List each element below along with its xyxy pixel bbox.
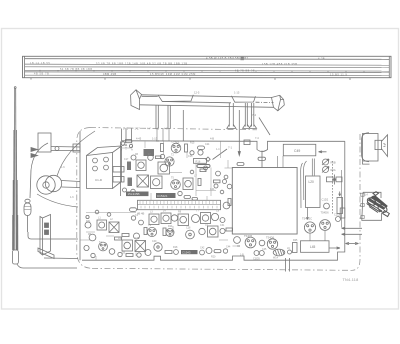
wire W-out2 xyxy=(289,258,291,272)
capacitor C3 xyxy=(131,155,136,160)
IF transformer T6 xyxy=(122,240,133,251)
capacitor C28 xyxy=(84,245,89,250)
pointer guides xyxy=(122,129,132,141)
svg-text:4B 5B 7B: 4B 5B 7B xyxy=(34,73,49,76)
capacitor Cx10 xyxy=(107,213,111,217)
wire 7-4 xyxy=(259,118,270,136)
capacitor C102 xyxy=(324,203,330,209)
power transistor TR20 xyxy=(320,220,331,231)
wire to pointer label xyxy=(213,149,228,160)
resistor R15 xyxy=(185,144,188,152)
svg-text:R18: R18 xyxy=(173,246,178,249)
wire notch-shield xyxy=(261,151,263,168)
svg-text:C1D2: C1D2 xyxy=(322,198,329,202)
svg-text:C44: C44 xyxy=(210,188,215,191)
wire TR19 down xyxy=(310,231,325,241)
svg-text:C40: C40 xyxy=(152,240,157,243)
svg-text:4-B: 4-B xyxy=(210,137,214,141)
svg-text:C31: C31 xyxy=(220,224,225,227)
capacitor C42 xyxy=(200,250,205,255)
transistor TR14 xyxy=(199,228,205,234)
wire along right edge xyxy=(341,170,343,228)
resistor block R16 xyxy=(194,159,207,164)
shield big rect xyxy=(232,168,297,235)
IF transformer T8 xyxy=(178,214,189,226)
IF transformer T5 xyxy=(183,178,193,190)
transistor TR13 xyxy=(211,213,218,220)
svg-text:7-4: 7-4 xyxy=(255,136,259,140)
coil L1 xyxy=(97,220,107,230)
tuning control H xyxy=(327,175,343,185)
svg-text:R31: R31 xyxy=(86,220,91,223)
svg-text:C28: C28 xyxy=(186,227,191,230)
capacitor C39 xyxy=(258,157,266,160)
resistor R1 xyxy=(126,140,132,143)
resistor R102 xyxy=(337,192,343,214)
tuning gang box xyxy=(87,146,122,189)
svg-text:C1D4: C1D4 xyxy=(334,213,341,217)
capacitor C39b xyxy=(237,163,244,166)
capacitor C41 xyxy=(174,250,179,255)
capacitor Cx7 xyxy=(220,190,224,194)
svg-text:C15: C15 xyxy=(188,155,193,158)
capacitor C8 xyxy=(184,196,191,199)
capacitor C34 xyxy=(220,218,225,223)
wire pair x313 xyxy=(312,159,314,176)
transistor TR16 xyxy=(234,237,241,244)
svg-text:R6A: R6A xyxy=(331,168,336,172)
svg-text:7-4: 7-4 xyxy=(252,113,256,117)
svg-text:15L345B: 15L345B xyxy=(128,192,140,196)
capacitor C4 xyxy=(148,155,154,161)
power transistor TR19 xyxy=(304,222,315,233)
gang tab 2 xyxy=(113,177,124,183)
transistor TR1 xyxy=(171,143,181,153)
resistor R25 xyxy=(293,243,298,253)
svg-text:54 6B 7B BB 9B 1BB: 54 6B 7B BB 9B 1BB xyxy=(60,68,93,71)
capacitor C30 xyxy=(118,252,122,256)
svg-text:4.2B: 4.2B xyxy=(318,57,325,61)
capacitor Cx1 xyxy=(121,142,125,146)
IF transformer T3 xyxy=(137,175,149,187)
wire net field xyxy=(81,142,241,261)
capacitor C37 xyxy=(139,220,144,225)
capacitor Cy2 xyxy=(223,180,227,184)
svg-text:C35: C35 xyxy=(135,237,140,240)
svg-text:1-6: 1-6 xyxy=(70,196,74,199)
capacitor C25 xyxy=(160,154,164,158)
output coil L6 hatched xyxy=(273,249,285,256)
svg-text:1B: 1B xyxy=(122,252,125,255)
svg-text:L45: L45 xyxy=(310,245,316,249)
terminal block right edge xyxy=(340,208,345,218)
capacitor C9 xyxy=(192,198,198,201)
capacitor Cy1 xyxy=(214,184,218,188)
wire W-out1 xyxy=(285,258,287,272)
svg-text:R20: R20 xyxy=(211,256,216,259)
svg-text:C21: C21 xyxy=(123,144,128,147)
svg-text:R14: R14 xyxy=(168,225,173,228)
coil L2 xyxy=(109,222,119,233)
antenna trimmer pill xyxy=(24,170,31,232)
svg-text:15.B5 11.9: 15.B5 11.9 xyxy=(330,72,347,76)
trimmer CT1 xyxy=(206,157,210,161)
resistor R24 xyxy=(165,251,172,254)
capacitor C44 xyxy=(223,249,227,253)
pot VR2 xyxy=(322,167,329,173)
field labels xyxy=(86,140,298,260)
capacitor C29 xyxy=(109,249,115,255)
tuning drum xyxy=(37,175,80,194)
capacitor Cx2 xyxy=(129,144,132,147)
pill C43 xyxy=(214,250,221,253)
resistor R20 xyxy=(226,228,233,231)
svg-text:C17: C17 xyxy=(124,158,129,161)
capacitor Cx11 xyxy=(86,215,89,218)
dimension arrow right xyxy=(346,242,359,244)
svg-text:TN4-118: TN4-118 xyxy=(343,278,359,282)
wire dashed x332 xyxy=(332,161,334,215)
coil L4 xyxy=(161,213,171,224)
capacitor C27 xyxy=(85,222,91,228)
transistor TR6 xyxy=(89,234,96,241)
transistor TR4 xyxy=(171,180,181,190)
connector strip CN1 xyxy=(138,200,221,209)
svg-text:4BM 49B: 4BM 49B xyxy=(103,72,116,76)
capacitor C47 xyxy=(288,250,292,254)
capacitor Cx9 xyxy=(95,210,99,214)
svg-text:R16: R16 xyxy=(196,159,201,163)
capacitor Cx3 xyxy=(204,166,208,170)
capacitor C7 xyxy=(178,191,182,195)
power transistor TR17 xyxy=(245,237,256,248)
wire pill to board xyxy=(28,232,78,239)
capacitor C6 xyxy=(131,189,136,194)
svg-text:W14: W14 xyxy=(273,257,279,260)
pot VR1 xyxy=(322,159,329,165)
IF transformer T1 xyxy=(136,160,146,171)
electrolytic C32 xyxy=(154,243,162,251)
capacitor Cx8 xyxy=(190,170,194,174)
capacitor Cx4 xyxy=(216,171,221,176)
antenna xyxy=(12,87,77,268)
dark label strip 3 xyxy=(181,250,198,255)
L20 tall rect xyxy=(306,176,321,208)
dial cord curves xyxy=(31,131,95,207)
svg-text:C42: C42 xyxy=(200,247,205,250)
resistor Rx1 xyxy=(214,180,221,183)
svg-text:R12: R12 xyxy=(118,237,123,240)
resistor Ry2 xyxy=(156,156,162,159)
svg-text:4-45: 4-45 xyxy=(136,137,142,141)
label strip dark 2 xyxy=(156,193,176,198)
terminal rect TP1 xyxy=(244,140,250,145)
wire C49 leads xyxy=(278,156,284,168)
transistor TR7 xyxy=(99,242,108,251)
transistor TR9 xyxy=(147,227,156,236)
capacitor C36 xyxy=(131,216,135,220)
svg-text:C24: C24 xyxy=(205,143,210,146)
svg-text:R5B: R5B xyxy=(331,161,336,165)
svg-text:4B: 4B xyxy=(237,245,240,248)
capacitor Cx5 xyxy=(224,175,228,179)
power transistor TR18 xyxy=(267,239,277,249)
transistor TR5 xyxy=(223,202,230,209)
svg-text:4B: 4B xyxy=(88,233,91,236)
resistor R19 xyxy=(163,228,166,236)
twin capacitor C46 xyxy=(253,251,264,261)
capacitor Cx6 xyxy=(227,184,232,189)
electrolytic C33 xyxy=(186,230,195,239)
capacitor C40 xyxy=(137,253,141,257)
transistor TR11 xyxy=(166,229,174,237)
svg-text:C45: C45 xyxy=(262,248,267,251)
capacitor C5 xyxy=(123,188,127,192)
capacitor bar C26 xyxy=(197,165,210,168)
resistor R18 xyxy=(115,237,122,240)
svg-text:4B: 4B xyxy=(135,153,138,156)
capacitor C38 xyxy=(91,253,95,257)
capacitor C45 xyxy=(259,240,265,246)
svg-text:15B 17B 4B8 31B 35B: 15B 17B 4B8 31B 35B xyxy=(262,62,297,66)
handle rail xyxy=(131,90,285,111)
pointer arrow line xyxy=(238,110,240,156)
svg-text:C1D5: C1D5 xyxy=(253,257,260,261)
earphone jack assembly xyxy=(342,192,390,236)
svg-text:1-15: 1-15 xyxy=(234,90,240,94)
transistor TR8 xyxy=(134,233,140,239)
svg-text:C15421: C15421 xyxy=(157,194,168,198)
svg-text:C49: C49 xyxy=(294,149,300,153)
lower-left bracket plate xyxy=(38,215,78,259)
resistor R2 xyxy=(161,144,164,152)
transistor TR12 xyxy=(192,215,200,223)
PCB outline xyxy=(80,110,345,260)
capacitor C35 xyxy=(220,228,225,233)
svg-text:6B 7B BB 9B: 6B 7B BB 9B xyxy=(235,70,255,73)
battery holder rect xyxy=(301,241,341,253)
svg-text:C1-D: C1-D xyxy=(95,178,103,182)
resistor R23 xyxy=(126,254,133,257)
svg-text:53 6B 7B 8B 1BB 12B 14B 16B: 53 6B 7B 8B 1BB 12B 14B 16B 4B 52 6B 7B … xyxy=(96,61,188,65)
wire C49-L20 b xyxy=(304,161,307,200)
svg-text:T54D6: T54D6 xyxy=(321,211,330,215)
transistor TR10 xyxy=(171,215,177,221)
svg-text:12-5: 12-5 xyxy=(194,91,200,95)
capacitor C31 xyxy=(145,250,151,256)
upper-left bracket xyxy=(31,133,80,158)
IF transformer T7 xyxy=(135,241,146,252)
svg-text:L20: L20 xyxy=(309,180,315,184)
transistor TR2 xyxy=(198,150,203,155)
svg-text:C1543: C1543 xyxy=(182,251,191,255)
svg-text:4-B: 4-B xyxy=(155,126,159,130)
svg-text:15.B5(M) 49M 41M 31M 2: 15.B5(M) 49M 41M 31M 25M xyxy=(150,72,196,76)
dial mount ticks xyxy=(31,78,350,80)
cabinet outline dash-dot xyxy=(77,128,360,271)
electrolytic dark CE1 xyxy=(144,149,155,156)
coil L3 xyxy=(149,214,159,225)
svg-text:1B 14 1B 55: 1B 14 1B 55 xyxy=(30,62,50,65)
IF transformer T4 xyxy=(151,176,163,189)
capacitor C104 xyxy=(334,213,341,222)
wire C49-L20 a xyxy=(301,163,303,208)
transistor TR3 xyxy=(165,157,174,166)
resistor Rx2 xyxy=(198,179,201,186)
dial ticks row xyxy=(40,70,364,72)
IF transformer T2 xyxy=(158,162,170,174)
transistor TR15 xyxy=(206,248,212,254)
speaker xyxy=(362,133,388,164)
svg-text:1-45: 1-45 xyxy=(123,126,129,130)
svg-text:R25: R25 xyxy=(293,239,298,242)
svg-text:T5 4D2: T5 4D2 xyxy=(171,140,180,144)
dial scale assembly xyxy=(23,56,392,80)
svg-text:C44: C44 xyxy=(226,246,231,249)
diode D2 dark xyxy=(128,178,133,187)
resistor R22 xyxy=(122,234,129,237)
capacitor C23 xyxy=(190,151,194,155)
diode D1 dark xyxy=(127,162,131,171)
gang tab 1 xyxy=(113,167,124,173)
rail legs xyxy=(156,103,257,141)
svg-text:4B 4B: 4B 4B xyxy=(137,212,145,216)
capacitor C24 xyxy=(198,146,205,149)
resistor R17 xyxy=(228,199,231,206)
dial pointer mark xyxy=(241,57,244,60)
wire L20 down xyxy=(307,208,309,220)
IF transformer T9 xyxy=(208,226,219,237)
resistor Ry1 xyxy=(200,169,206,172)
svg-text:R15: R15 xyxy=(190,142,195,145)
coil L5 xyxy=(201,213,211,224)
svg-text:7-1: 7-1 xyxy=(228,146,232,150)
C49 block xyxy=(283,144,326,156)
svg-text:4-5: 4-5 xyxy=(164,126,168,130)
capacitor C48 xyxy=(130,208,137,212)
resistor R21b xyxy=(144,228,147,235)
svg-text:4-7: 4-7 xyxy=(147,126,151,130)
label strip dark 1 xyxy=(126,192,149,197)
wire net V1 xyxy=(120,142,122,197)
svg-text:1-6: 1-6 xyxy=(61,166,65,169)
svg-text:1-B: 1-B xyxy=(240,254,244,257)
svg-text:1-17: 1-17 xyxy=(135,126,141,130)
